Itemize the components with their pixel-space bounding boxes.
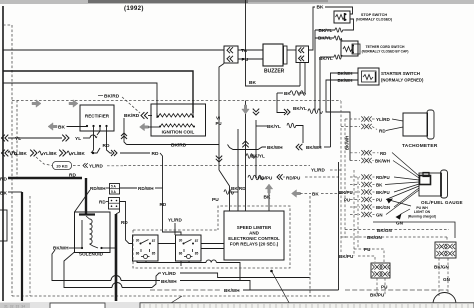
bus bar top joint [116, 209, 120, 214]
svg-text:IGNITION COIL: IGNITION COIL [162, 130, 195, 135]
wire GN lower [373, 222, 455, 238]
wire PU down to VI/PU column [219, 64, 224, 171]
connector J1 housing [224, 46, 238, 63]
wire YL/RD lower row [152, 273, 161, 288]
wire RD/PU row [248, 175, 264, 180]
svg-text:(NORMALLY CLOSED BY CAP): (NORMALLY CLOSED BY CAP) [362, 50, 409, 54]
connector J1 pin 2 chevron [227, 56, 233, 62]
tachometer face cap [427, 110, 434, 139]
resistor 20 Kohm box [53, 162, 72, 170]
wire hop over bus 1 [111, 276, 121, 281]
wire RD thick row [8, 177, 82, 179]
wire VI/PU diagonal to limiter [219, 170, 230, 211]
svg-text:YL/RD: YL/RD [168, 218, 182, 223]
connector BK gauge row [350, 184, 360, 186]
svg-text:5 A: 5 A [111, 185, 117, 189]
svg-text:SPEED LIMITER: SPEED LIMITER [237, 225, 272, 230]
solenoid coil [90, 219, 93, 244]
leader to dashed enclosure [163, 296, 182, 308]
svg-text:YL: YL [75, 136, 81, 142]
wire PU stub [238, 58, 263, 60]
svg-text:YL/BK: YL/BK [71, 151, 85, 156]
tachometer body [403, 113, 428, 136]
wire BK/RD horizontal to center [127, 144, 220, 146]
left edge connector box [0, 210, 7, 241]
connector BK/GN gauge row [350, 206, 360, 208]
svg-text:BK: BK [249, 80, 256, 86]
svg-text:BK/YL: BK/YL [293, 106, 307, 111]
svg-text:YL/BK: YL/BK [43, 151, 57, 156]
wire YL/RD to relay2 coil [174, 223, 176, 235]
svg-text:STOP SWITCH: STOP SWITCH [361, 13, 387, 17]
wire top BK/YL row [284, 109, 290, 115]
svg-text:BK: BK [0, 191, 7, 197]
svg-text:BK: BK [376, 183, 383, 188]
wire BK row [8, 191, 22, 193]
connector block gauge sender [435, 242, 456, 258]
connector chevron YL/BK 2 [59, 150, 66, 157]
stop switch lower terminal wire [345, 19, 354, 30]
svg-text:86: 86 [179, 251, 183, 255]
svg-text:TETHER CORD SWITCH: TETHER CORD SWITCH [366, 45, 405, 49]
svg-text:RD: RD [379, 129, 386, 134]
wire BK thick down [21, 192, 23, 301]
svg-text:BK/WH: BK/WH [267, 145, 283, 150]
wire RD down to fuse junction [160, 153, 163, 188]
page bottom edge strip [0, 302, 474, 308]
wire BK/WH lower row [121, 280, 160, 282]
solenoid left branch [81, 220, 83, 248]
starter switch S3 housing [358, 68, 379, 85]
connector chevron YL mid [62, 135, 69, 142]
svg-text:(Running charged): (Running charged) [408, 214, 436, 218]
oil/fuel gauge face cap [441, 170, 448, 198]
connector chevron left edge YL [2, 135, 9, 142]
svg-text:GN: GN [376, 213, 383, 218]
wire BK/RD vertical at coil [124, 118, 127, 145]
svg-text:OIL/FUEL GAUGE: OIL/FUEL GAUGE [421, 200, 463, 205]
connector RD/PU gauge row [350, 176, 360, 178]
connector chevron up on BK [242, 141, 248, 147]
speed limiter box [224, 211, 284, 260]
dashed center horizontal YL/RD net [124, 165, 310, 167]
svg-text:20 KΩ: 20 KΩ [56, 163, 67, 168]
wire PU dashed lower [354, 249, 384, 262]
wire relay2 to limiter [201, 243, 224, 245]
svg-text:RD: RD [160, 202, 167, 207]
wire YL row right [83, 137, 90, 139]
wire tether lower drop [319, 57, 321, 147]
wire BK/GN dashed lower [345, 229, 449, 231]
grey arrow BK up [265, 184, 273, 193]
buzzer flange [284, 46, 288, 64]
svg-text:BK/WH: BK/WH [338, 71, 353, 76]
wire rectifier leg 2 [91, 126, 94, 153]
ignition coil secondary winding [160, 124, 194, 127]
svg-text:RD: RD [99, 200, 106, 205]
svg-text:BUZZER: BUZZER [264, 69, 285, 75]
svg-text:RD: RD [152, 151, 159, 157]
wire GN below block [447, 258, 449, 294]
wire YL row [8, 137, 62, 139]
wire relay2 to limiter lower [201, 248, 224, 250]
wire TA label [238, 49, 263, 51]
svg-text:GN: GN [443, 277, 451, 282]
svg-text:RD: RD [380, 151, 386, 156]
dashed engine boundary horizontal [12, 100, 341, 102]
wire BK/YL tap mid [246, 154, 255, 159]
svg-text:BK/PU: BK/PU [339, 254, 354, 259]
svg-text:BK/YL: BK/YL [319, 56, 333, 61]
solenoid terminals [81, 247, 83, 249]
tether switch contact [343, 47, 352, 52]
svg-text:BK/PU: BK/PU [370, 293, 385, 298]
starter switch contact [363, 75, 373, 80]
svg-text:BK/PU: BK/PU [376, 190, 390, 195]
svg-text:(1992): (1992) [124, 5, 144, 12]
bottom fuel tank box [140, 303, 474, 308]
svg-text:PU: PU [381, 285, 388, 290]
connector chevron left edge YL/BK [2, 150, 9, 157]
svg-text:AND: AND [249, 231, 259, 236]
grey arrow BK down [242, 105, 250, 114]
wire YL/BK end [92, 148, 100, 153]
connector BK/WH gauge row [350, 160, 360, 162]
svg-text:STARTER SWITCH: STARTER SWITCH [381, 71, 420, 76]
connector chevron RD/PU [277, 174, 283, 180]
svg-text:RD: RD [121, 220, 128, 225]
grey arrow BK rectifier [48, 123, 57, 131]
connector RD tach [341, 126, 360, 128]
bottom left small box [50, 303, 105, 308]
wire chevron to coil [148, 115, 152, 117]
dashed boundary right edge [309, 196, 311, 296]
wire J2 to stop switch BK [309, 7, 316, 50]
svg-text:YL: YL [15, 136, 21, 142]
svg-text:BK/YL: BK/YL [319, 28, 333, 33]
buzzer body [263, 44, 283, 66]
note arrow to PU wire [391, 201, 411, 207]
svg-text:PU: PU [216, 121, 222, 126]
svg-text:BK/RD: BK/RD [171, 143, 187, 149]
wire BK/YL tether lower [320, 56, 334, 58]
wire ignition feed lower [3, 83, 157, 113]
svg-text:RD/PU: RD/PU [376, 175, 390, 180]
wire BK/WH starter 1 [335, 72, 358, 74]
rectifier box [80, 105, 114, 131]
svg-text:BK: BK [317, 4, 324, 10]
grey arrow boundary right 1 [32, 100, 41, 108]
svg-text:YL/RD: YL/RD [376, 117, 390, 122]
dashed hull boundary second vertical [16, 100, 18, 180]
svg-text:BK/GN: BK/GN [376, 205, 390, 210]
fuel sender dome [433, 293, 456, 305]
svg-text:BK/WH: BK/WH [53, 246, 69, 251]
svg-text:YL/RD: YL/RD [311, 168, 325, 173]
svg-text:SOLENOID: SOLENOID [79, 252, 104, 257]
wire BK/WH down left [52, 250, 111, 281]
wire BK/PU dashed lower [358, 256, 375, 262]
wire BK/YL chevron down top [253, 109, 259, 115]
svg-text:5 A: 5 A [111, 190, 117, 194]
resistor 20 Kohm dashed branch [36, 157, 52, 166]
wire tach leads [392, 119, 403, 121]
wire BK/YL label row [256, 125, 267, 127]
connector chevron up BK/RD [121, 133, 127, 139]
gauge leads fan [392, 153, 419, 177]
relay K1 box [133, 235, 159, 261]
wire starter drop 1 [331, 73, 336, 147]
leader long diagonal [272, 271, 293, 308]
connector J2 housing [296, 46, 309, 63]
wires below fuel connector [376, 278, 378, 295]
thick BK/WH bus bar [115, 214, 118, 301]
svg-text:PU: PU [376, 198, 382, 203]
wire J2 pin2 to BK node [299, 63, 301, 87]
connector chevron YL/BK 1 [30, 150, 37, 157]
wire RD/WH diagonal to solenoid [75, 190, 91, 212]
wire BK/YL chain down [314, 30, 316, 111]
stop switch spring contact [336, 15, 345, 20]
stop switch S1 housing [334, 11, 350, 23]
svg-text:BK/PU: BK/PU [339, 190, 353, 195]
svg-text:RD/WH: RD/WH [90, 186, 106, 191]
wire BK/YL tether upper [315, 37, 334, 39]
rectifier terminals [86, 125, 88, 127]
speed limiter dashed enclosure [133, 229, 218, 231]
wire RD thick down to solenoid [85, 178, 87, 214]
svg-text:YL/RD: YL/RD [162, 271, 176, 276]
svg-text:BK/RD: BK/RD [104, 94, 120, 100]
wire BK twisted stub [277, 92, 283, 94]
wire BK/WH center row [228, 145, 267, 150]
wire tether upper join [315, 37, 319, 39]
fuse F2 connector [109, 198, 120, 210]
svg-text:PU: PU [344, 198, 350, 203]
dashed bus vertical 4 [357, 177, 359, 249]
svg-text:BK: BK [264, 195, 271, 201]
wire solenoid to thick bus [102, 247, 117, 249]
grey arrow ignition secondary [140, 123, 149, 131]
svg-text:PU: PU [212, 197, 219, 203]
wire BK rectifier [67, 126, 88, 128]
svg-text:RD/PU: RD/PU [258, 176, 273, 181]
ignition coil box [151, 104, 206, 136]
svg-text:BK/YL: BK/YL [267, 124, 281, 129]
svg-text:85: 85 [152, 251, 156, 255]
svg-text:30: 30 [179, 238, 183, 242]
wire BK/WH long dashed [150, 289, 222, 291]
label YL/RD dashed [73, 165, 80, 167]
dashed boundary third vertical [29, 196, 31, 296]
connector block fuel sender [371, 263, 390, 278]
wire BK to stop switch [325, 7, 353, 14]
svg-text:TA: TA [241, 48, 248, 54]
wire rectifier leg 4 RD [107, 126, 113, 153]
note arrow to GN wire [400, 209, 410, 215]
wire relay1 to relay2 [158, 243, 176, 245]
left page border [2, 6, 4, 301]
wire TA to connector [3, 49, 224, 51]
connector J2 pin 1 chevron [299, 47, 305, 53]
svg-text:BK/GN: BK/GN [377, 228, 392, 233]
wire BK/GN dashed 2 [341, 236, 447, 238]
svg-text:BK/WH: BK/WH [161, 279, 177, 284]
svg-text:30: 30 [136, 238, 140, 242]
tether cord switch S2 housing [341, 41, 358, 56]
svg-text:YL/RD: YL/RD [89, 164, 103, 169]
grey arrow boundary right 2 [69, 100, 78, 108]
connector chevron BK/WH [296, 144, 302, 150]
connector RD gauge row [350, 152, 360, 154]
wire BK from top edge [246, 0, 301, 86]
wire solenoid bottom left leg [64, 252, 112, 288]
svg-text:31 32 33 34: 31 32 33 34 [4, 305, 25, 308]
connector BK/PU gauge row [350, 191, 360, 193]
ignition coil primary winding [158, 114, 193, 117]
svg-text:PU: PU [364, 247, 371, 252]
dashed hull boundary left vertical [3, 25, 12, 296]
svg-text:BK/GN: BK/GN [367, 235, 382, 240]
fuse F1 5A [110, 184, 120, 195]
svg-text:VI: VI [216, 116, 220, 121]
dashed bus vertical 3 [353, 170, 355, 256]
svg-text:BK/WH: BK/WH [224, 288, 240, 293]
solenoid feed bar [79, 213, 95, 215]
svg-text:YL/BK: YL/BK [13, 151, 27, 156]
oil/fuel gauge body [419, 173, 442, 196]
svg-text:RD: RD [103, 143, 110, 149]
wire J2 pin2b down [304, 63, 306, 94]
connector chevron down VI/PU [216, 156, 222, 162]
svg-text:87: 87 [152, 239, 156, 243]
svg-text:BK/YL: BK/YL [251, 154, 265, 159]
svg-text:86: 86 [136, 251, 140, 255]
wire BK/RD dashed above rectifier [98, 95, 103, 97]
svg-text:RD: RD [69, 173, 76, 179]
connector J2 pin 2 chevron [299, 56, 305, 62]
svg-text:TACHOMETER: TACHOMETER [402, 143, 438, 149]
connector GN gauge row [350, 214, 360, 216]
wire BK/WH starter 2 [335, 79, 358, 81]
wire YL/RD dashed continues [107, 165, 124, 167]
wire RD/WH junction [106, 187, 110, 189]
wire buzzer to connector J2 [287, 49, 296, 51]
wire BK crossing boundary down [245, 101, 247, 212]
svg-text:87: 87 [195, 239, 199, 243]
svg-text:BK: BK [58, 125, 65, 131]
svg-text:BK/WH: BK/WH [338, 78, 353, 83]
connector chevron ignition primary [141, 112, 148, 119]
svg-text:RECTIFIER: RECTIFIER [85, 114, 110, 119]
svg-text:BK: BK [284, 91, 291, 96]
svg-text:RD/WH: RD/WH [138, 186, 154, 191]
svg-text:BK/GN: BK/GN [434, 265, 449, 270]
connector YL/RD tach [345, 118, 360, 120]
svg-text:RD: RD [0, 177, 7, 183]
svg-text:BK/YL: BK/YL [318, 36, 332, 41]
oil/fuel gauge connector [420, 176, 431, 185]
wire hop over bus 2 [112, 283, 122, 288]
svg-text:BK/RD: BK/RD [231, 186, 246, 191]
wire relay bottoms [137, 261, 206, 263]
wire BK/YL vertical [255, 120, 257, 178]
wire BK up-arrow into limiter [268, 193, 270, 211]
svg-text:85: 85 [195, 251, 199, 255]
wire BK/RD net vertical [237, 129, 239, 211]
svg-text:(NORMALY OPENED): (NORMALY OPENED) [381, 78, 424, 83]
relay K2 box [176, 235, 202, 261]
wire BK/WH to starter drop [324, 146, 331, 148]
wire BK/GN below block [438, 258, 440, 296]
svg-text:BK/RD: BK/RD [124, 113, 140, 119]
svg-text:GN: GN [396, 221, 404, 226]
svg-text:ELECTRONIC CONTROL: ELECTRONIC CONTROL [228, 236, 280, 241]
connector J1 pin 1 chevron [227, 47, 233, 53]
wire starter drop 2 [326, 80, 350, 161]
svg-text:BK: BK [312, 192, 319, 197]
dashed bus vertical 2 [344, 119, 346, 238]
connector PU gauge row [350, 199, 360, 201]
wire BK/YL stop lower [315, 29, 335, 31]
dashed boundary bottom [12, 295, 330, 297]
svg-text:BK/WH: BK/WH [375, 159, 390, 164]
svg-text:(NORMALY CLOSED): (NORMALY CLOSED) [356, 18, 393, 22]
wire BK/RD twisted tap [224, 190, 234, 195]
page background edge shading top [0, 0, 474, 4]
dashed bus vertical 1 [340, 101, 342, 252]
svg-text:BK/WH: BK/WH [306, 145, 322, 150]
svg-text:RD/PU: RD/PU [286, 176, 301, 181]
wire RD from fuse2 [120, 202, 133, 244]
solenoid box [75, 212, 111, 253]
wire BK/YL row from BK stub [277, 93, 285, 113]
wire rectifier leg 3 YL [97, 127, 100, 135]
wire ignition feed upper [3, 71, 193, 113]
svg-text:FOR RELAYS (20 SEC.): FOR RELAYS (20 SEC.) [230, 242, 279, 247]
grey arrow BK dashed right [292, 190, 301, 198]
